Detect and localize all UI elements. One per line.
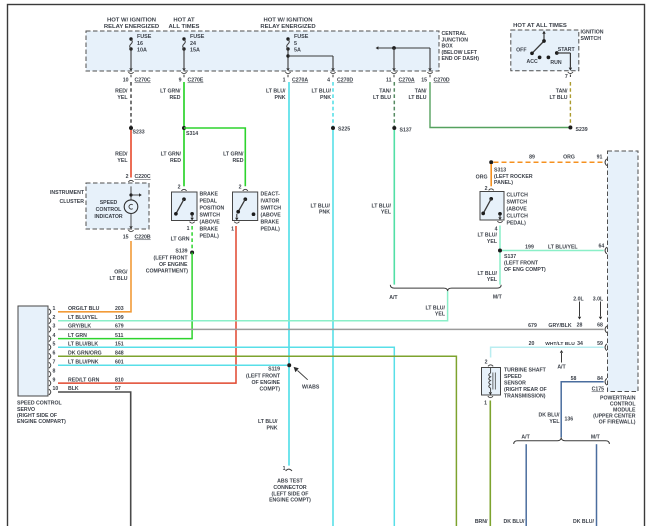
svg-text:DK BLU/: DK BLU/ <box>538 413 560 419</box>
svg-text:PEDAL): PEDAL) <box>261 227 281 233</box>
svg-text:LT BLU: LT BLU <box>408 95 426 101</box>
svg-text:LT BLU: LT BLU <box>373 95 391 101</box>
svg-text:C270D: C270D <box>337 78 353 84</box>
svg-text:1: 1 <box>484 401 487 407</box>
svg-text:HOT AT ALL TIMES: HOT AT ALL TIMES <box>513 23 567 29</box>
svg-text:2: 2 <box>485 360 488 366</box>
svg-text:LT BLU: LT BLU <box>549 95 567 101</box>
svg-text:MODULE: MODULE <box>613 408 636 414</box>
svg-text:M/T: M/T <box>591 434 601 440</box>
svg-text:S137: S137 <box>504 254 516 260</box>
svg-text:YEL: YEL <box>549 419 560 425</box>
svg-text:INDICATOR: INDICATOR <box>94 214 123 220</box>
svg-text:C175: C175 <box>592 387 605 393</box>
svg-text:PEDAL): PEDAL) <box>507 221 527 227</box>
svg-text:YEL: YEL <box>381 210 392 216</box>
svg-text:RED: RED <box>233 158 244 164</box>
svg-text:10: 10 <box>53 386 59 392</box>
svg-text:LT BLU/: LT BLU/ <box>258 419 278 425</box>
svg-text:15: 15 <box>123 235 129 241</box>
svg-text:11: 11 <box>386 78 392 84</box>
svg-text:S233: S233 <box>133 130 145 136</box>
svg-text:BRN/: BRN/ <box>475 519 488 525</box>
svg-text:END OF DASH): END OF DASH) <box>442 56 480 62</box>
svg-text:COMPARTMENT): COMPARTMENT) <box>146 268 189 274</box>
svg-text:SERVO: SERVO <box>17 407 35 413</box>
svg-text:IVATOR: IVATOR <box>261 199 280 205</box>
svg-text:TRANSMISSION): TRANSMISSION) <box>504 394 546 400</box>
svg-text:LT GRN/: LT GRN/ <box>223 152 244 158</box>
svg-text:8: 8 <box>53 368 56 374</box>
svg-text:ENGINE COMPT): ENGINE COMPT) <box>269 498 311 504</box>
svg-text:ORG: ORG <box>476 175 488 181</box>
svg-text:SWITCH: SWITCH <box>261 206 282 212</box>
svg-text:LT BLU/: LT BLU/ <box>426 305 446 311</box>
svg-text:ORG: ORG <box>563 154 575 160</box>
svg-text:YEL: YEL <box>117 158 128 164</box>
svg-text:LT GRN: LT GRN <box>68 333 87 339</box>
svg-text:ORG/: ORG/ <box>114 270 128 276</box>
svg-text:1: 1 <box>53 306 56 312</box>
svg-text:YEL: YEL <box>117 95 128 101</box>
svg-text:RED/LT GRN: RED/LT GRN <box>68 377 100 383</box>
svg-text:LT BLU/: LT BLU/ <box>478 233 498 239</box>
svg-text:LT BLU/: LT BLU/ <box>372 203 392 209</box>
svg-text:SENSOR: SENSOR <box>504 381 526 387</box>
svg-text:DEACT-: DEACT- <box>261 192 281 198</box>
svg-text:(ABOVE: (ABOVE <box>200 220 221 226</box>
svg-text:TAN/: TAN/ <box>415 89 427 95</box>
svg-text:M/T: M/T <box>493 295 503 301</box>
svg-text:RUN: RUN <box>550 60 561 66</box>
svg-text:2: 2 <box>178 185 181 191</box>
svg-text:64: 64 <box>599 243 605 249</box>
svg-text:S137: S137 <box>400 128 412 134</box>
svg-text:HOT W/ IGNITION: HOT W/ IGNITION <box>263 18 312 24</box>
svg-text:BRAKE: BRAKE <box>200 192 219 198</box>
svg-text:SPEED: SPEED <box>504 374 522 380</box>
svg-text:A/T: A/T <box>389 295 398 301</box>
svg-text:(LEFT FRONT: (LEFT FRONT <box>504 260 539 266</box>
svg-text:7: 7 <box>565 74 568 80</box>
svg-text:34: 34 <box>577 341 583 347</box>
svg-text:(RIGHT SIDE OF: (RIGHT SIDE OF <box>17 413 57 419</box>
svg-text:S239: S239 <box>576 127 588 133</box>
svg-text:PNK: PNK <box>319 210 330 216</box>
svg-text:PANEL): PANEL) <box>494 180 513 186</box>
svg-text:89: 89 <box>529 154 535 160</box>
svg-text:199: 199 <box>525 244 534 250</box>
svg-text:DK BLU/: DK BLU/ <box>573 519 595 525</box>
svg-text:SWITCH: SWITCH <box>581 36 602 42</box>
svg-text:LT BLU: LT BLU <box>109 276 127 282</box>
svg-text:DK BLU/: DK BLU/ <box>503 519 525 525</box>
svg-text:ABS TEST: ABS TEST <box>277 479 303 485</box>
svg-text:OF FIREWALL): OF FIREWALL) <box>599 420 636 426</box>
svg-text:S139: S139 <box>175 249 187 255</box>
svg-text:3.0L: 3.0L <box>593 296 604 302</box>
svg-text:LT GRN/: LT GRN/ <box>161 152 182 158</box>
svg-text:9: 9 <box>53 377 56 383</box>
svg-text:BOX: BOX <box>442 44 454 50</box>
svg-text:CONNECTOR: CONNECTOR <box>273 485 307 491</box>
svg-text:LT BLU/YEL: LT BLU/YEL <box>68 315 98 321</box>
svg-text:511: 511 <box>115 333 123 339</box>
svg-text:YEL: YEL <box>487 239 498 245</box>
svg-text:1: 1 <box>283 466 286 472</box>
svg-text:679: 679 <box>528 323 537 329</box>
svg-text:1: 1 <box>187 226 190 232</box>
svg-text:ORG/LT BLU: ORG/LT BLU <box>68 306 100 312</box>
svg-text:15A: 15A <box>190 48 200 54</box>
svg-text:CONTROL: CONTROL <box>610 401 636 407</box>
svg-text:PNK: PNK <box>320 95 331 101</box>
svg-text:84: 84 <box>597 376 603 382</box>
svg-text:2: 2 <box>53 315 56 321</box>
svg-text:TAN/: TAN/ <box>379 89 391 95</box>
svg-text:CENTRAL: CENTRAL <box>442 31 468 37</box>
svg-text:S119: S119 <box>268 367 280 373</box>
svg-text:28: 28 <box>577 322 583 328</box>
svg-text:INSTRUMENT: INSTRUMENT <box>50 190 85 196</box>
svg-text:7: 7 <box>53 359 56 365</box>
svg-text:(ABOVE: (ABOVE <box>261 213 282 219</box>
svg-text:4: 4 <box>327 78 330 84</box>
svg-text:GRY/BLK: GRY/BLK <box>548 323 571 329</box>
svg-text:LT GRN/: LT GRN/ <box>160 89 181 95</box>
svg-text:YEL: YEL <box>435 312 446 318</box>
svg-text:136: 136 <box>565 417 574 423</box>
svg-text:(LEFT ROCKER: (LEFT ROCKER <box>494 174 533 180</box>
svg-text:COMPT): COMPT) <box>260 386 281 392</box>
svg-text:5: 5 <box>53 342 56 348</box>
svg-text:2: 2 <box>126 174 129 180</box>
svg-text:(UPPER CENTER: (UPPER CENTER <box>593 414 636 420</box>
svg-text:A/T: A/T <box>557 365 566 371</box>
svg-text:S313: S313 <box>494 168 506 174</box>
svg-text:FUSE: FUSE <box>137 34 152 40</box>
svg-text:SWITCH: SWITCH <box>200 213 221 219</box>
svg-text:C270D: C270D <box>434 78 450 84</box>
svg-text:1: 1 <box>231 227 234 233</box>
svg-text:FUSE: FUSE <box>294 34 309 40</box>
svg-text:S225: S225 <box>338 127 350 133</box>
svg-text:YEL: YEL <box>487 277 498 283</box>
svg-text:C270C: C270C <box>135 78 151 84</box>
svg-text:WHT/LT BLU: WHT/LT BLU <box>545 341 575 347</box>
svg-text:RED: RED <box>170 95 181 101</box>
svg-text:SPEED: SPEED <box>100 200 118 206</box>
svg-text:OF ENGINE: OF ENGINE <box>251 380 280 386</box>
svg-text:68: 68 <box>597 322 603 328</box>
svg-text:ACC: ACC <box>527 59 538 65</box>
svg-text:24: 24 <box>190 41 196 47</box>
svg-text:A/T: A/T <box>521 435 530 441</box>
svg-text:(RIGHT REAR OF: (RIGHT REAR OF <box>504 387 547 393</box>
svg-text:10A: 10A <box>137 48 147 54</box>
svg-text:HOT W/ IGNITION: HOT W/ IGNITION <box>107 18 156 24</box>
svg-text:CONTROL: CONTROL <box>96 207 122 213</box>
svg-text:ALL TIMES: ALL TIMES <box>169 24 200 30</box>
svg-text:TURBINE SHAFT: TURBINE SHAFT <box>504 368 547 374</box>
svg-text:59: 59 <box>597 341 603 347</box>
svg-text:IGNITION: IGNITION <box>581 30 604 36</box>
svg-text:5: 5 <box>294 41 297 47</box>
svg-text:(ABOVE: (ABOVE <box>507 207 528 213</box>
svg-text:RED/: RED/ <box>115 152 128 158</box>
svg-text:C220C: C220C <box>135 174 151 180</box>
svg-text:58: 58 <box>571 376 577 382</box>
svg-text:810: 810 <box>115 377 124 383</box>
svg-text:C220B: C220B <box>135 235 151 241</box>
svg-text:OF ENG COMPT): OF ENG COMPT) <box>504 267 546 273</box>
svg-text:START: START <box>558 47 576 53</box>
svg-text:(LEFT FRONT: (LEFT FRONT <box>246 374 281 380</box>
svg-text:20: 20 <box>529 341 535 347</box>
svg-text:9: 9 <box>179 78 182 84</box>
svg-text:LT GRN: LT GRN <box>171 237 190 243</box>
svg-text:RED/: RED/ <box>115 89 128 95</box>
svg-text:203: 203 <box>115 306 124 312</box>
svg-text:C270E: C270E <box>188 78 204 84</box>
svg-text:LT BLU/: LT BLU/ <box>312 89 332 95</box>
svg-text:C270A: C270A <box>292 78 308 84</box>
svg-text:4: 4 <box>53 333 56 339</box>
svg-text:ENGINE COMPART): ENGINE COMPART) <box>17 419 66 425</box>
svg-text:PEDAL): PEDAL) <box>200 234 220 240</box>
svg-text:LT BLU/YEL: LT BLU/YEL <box>548 244 578 250</box>
svg-text:OF ENGINE: OF ENGINE <box>159 262 188 268</box>
svg-text:LT BLU/: LT BLU/ <box>478 271 498 277</box>
svg-text:5A: 5A <box>294 48 301 54</box>
svg-text:(LEFT SIDE OF: (LEFT SIDE OF <box>272 491 309 497</box>
svg-text:CLUTCH: CLUTCH <box>507 214 529 220</box>
svg-text:CLUSTER: CLUSTER <box>60 199 85 205</box>
svg-text:OFF: OFF <box>516 47 526 53</box>
svg-text:BRAKE: BRAKE <box>261 220 280 226</box>
svg-text:JUNCTION: JUNCTION <box>442 37 469 43</box>
svg-text:SWITCH: SWITCH <box>507 200 528 206</box>
svg-text:W/ABS: W/ABS <box>302 384 320 390</box>
svg-text:S314: S314 <box>186 131 198 137</box>
svg-text:SPEED CONTROL: SPEED CONTROL <box>17 401 63 407</box>
svg-text:10: 10 <box>123 78 129 84</box>
svg-text:RELAY ENERGIZED: RELAY ENERGIZED <box>260 24 315 30</box>
svg-text:POWERTRAIN: POWERTRAIN <box>600 395 636 401</box>
svg-text:2: 2 <box>239 185 242 191</box>
svg-text:POSITION: POSITION <box>200 206 225 212</box>
svg-text:2.0L: 2.0L <box>573 296 584 302</box>
svg-text:(LEFT FRONT: (LEFT FRONT <box>154 255 189 261</box>
svg-text:TAN/: TAN/ <box>556 89 568 95</box>
svg-text:LT BLU/: LT BLU/ <box>311 203 331 209</box>
svg-text:RED: RED <box>170 158 181 164</box>
svg-text:PEDAL: PEDAL <box>200 199 218 205</box>
svg-text:C270A: C270A <box>399 78 415 84</box>
svg-text:15: 15 <box>421 78 427 84</box>
svg-text:LT BLU/: LT BLU/ <box>266 89 286 95</box>
svg-text:PNK: PNK <box>267 426 278 432</box>
svg-text:3: 3 <box>53 324 56 330</box>
svg-text:HOT AT: HOT AT <box>173 18 195 24</box>
svg-text:16: 16 <box>137 41 143 47</box>
svg-text:CLUTCH: CLUTCH <box>507 193 529 199</box>
svg-text:4: 4 <box>495 226 498 232</box>
svg-text:RELAY ENERGIZED: RELAY ENERGIZED <box>104 24 159 30</box>
svg-text:199: 199 <box>115 315 124 321</box>
svg-text:PNK: PNK <box>275 95 286 101</box>
svg-text:(BELOW LEFT: (BELOW LEFT <box>442 50 478 56</box>
svg-text:91: 91 <box>597 154 603 160</box>
svg-text:1: 1 <box>283 78 286 84</box>
svg-text:BRAKE: BRAKE <box>200 227 219 233</box>
svg-text:FUSE: FUSE <box>190 34 205 40</box>
svg-text:6: 6 <box>53 350 56 356</box>
